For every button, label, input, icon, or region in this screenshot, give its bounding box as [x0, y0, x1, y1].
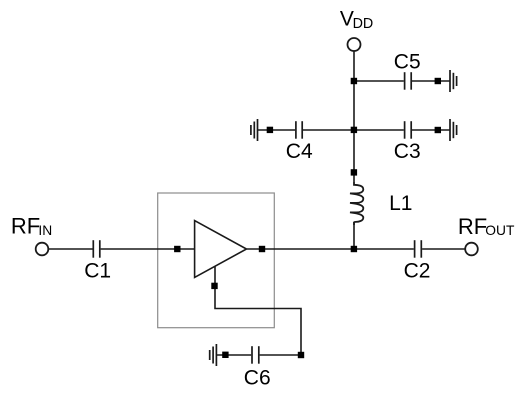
- svg-text:DD: DD: [353, 16, 374, 32]
- svg-text:C6: C6: [244, 367, 271, 390]
- svg-text:RF: RF: [458, 214, 487, 239]
- svg-text:IN: IN: [38, 223, 52, 238]
- svg-text:RF: RF: [11, 214, 40, 239]
- svg-text:C1: C1: [84, 260, 111, 283]
- svg-text:C5: C5: [394, 51, 421, 74]
- svg-text:C4: C4: [286, 140, 313, 163]
- svg-text:OUT: OUT: [485, 223, 515, 238]
- svg-text:C3: C3: [394, 140, 421, 163]
- svg-text:C2: C2: [404, 260, 431, 283]
- svg-text:L1: L1: [389, 192, 412, 215]
